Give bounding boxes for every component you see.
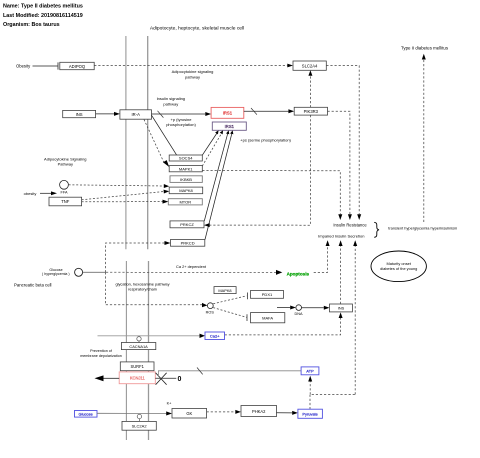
wire ROS inhibits PDX1 dashed [213,293,247,304]
svg-text:SURF1: SURF1 [130,364,144,369]
gene box MAPK1 [169,166,202,172]
svg-text:Apoptosis: Apoptosis [287,271,310,276]
label Adipocytokine signaling pathway right [172,69,214,80]
wire INS to IR-A [96,112,120,116]
brace [374,222,379,237]
svg-text:GK: GK [186,411,192,416]
metabolite box ATP [301,367,319,375]
svg-text:MAFA: MAFA [262,316,273,321]
wire MAPK1 to insulin resistance dashed [202,171,342,221]
gene box PHKA2 [241,406,277,417]
wire Obesity inhibits ADIPOQ [33,62,59,69]
gene box CACNA1A [121,343,155,350]
node ROS [206,303,215,315]
gene box IRS1 active (red) [211,107,244,118]
wire Ca2+ influx line [98,334,206,338]
svg-text:respiratory/chain: respiratory/chain [128,287,157,292]
gene box KCNJ11 [119,372,155,384]
svg-text:Ca 2+ dependent: Ca 2+ dependent [176,264,207,269]
wire ATP inhibits KCNJ11 [158,368,301,377]
gene box SURF1 [120,362,154,371]
svg-text:+ps (serine phosphorylation): +ps (serine phosphorylation) [240,137,291,142]
svg-text:IR-A: IR-A [132,112,141,117]
svg-text:phosphorylation): phosphorylation) [166,122,196,127]
wire ROS inhibits MAFA dashed [213,308,247,321]
wire glucose to GK [97,411,172,415]
wire IR-A to IRS1 active [152,111,212,118]
wire IRS1 to PIK3R3 [244,108,294,115]
membrane adipocyte left [125,36,127,249]
wire DNA to INS [302,306,330,310]
gene box GK [172,409,207,419]
wire TNF to MAPK8 dashed [82,190,170,200]
wire Ca2+ to INS dashed [225,312,343,335]
gene box INS beta cell [330,304,353,312]
svg-text:IRS1: IRS1 [225,124,235,129]
gene box MAPK8 [169,187,203,194]
svg-text:FFA: FFA [61,191,68,195]
gene box PIK3R3 [294,107,327,115]
svg-text:Adipocytokine signaling: Adipocytokine signaling [172,69,214,74]
wire MAPK1 to IRS1 dashed [202,130,223,166]
svg-text:Adipotocyte, heptocyte, skelet: Adipotocyte, heptocyte, skeletal muscle … [150,25,244,31]
svg-text:PIK3R3: PIK3R3 [304,109,319,114]
wire SLC2A4 to insulin resistance dashed [326,66,361,220]
wire TNF to MTOR dashed [82,200,169,204]
svg-text:transient hyperglycemia hyperi: transient hyperglycemia hyperinsulinism [388,225,457,230]
wire PIK3R3 to insulin resistance dashed [328,111,352,220]
svg-text:IRS1: IRS1 [223,111,233,116]
label Insulin signaling pathway [157,96,185,107]
svg-text:pathway: pathway [185,75,200,80]
wire PIK3R3 to SLC2A4 dashed [308,70,312,107]
wire pyruvate to ATP dashed [308,376,355,409]
gene box INS [63,110,96,117]
svg-text:Type II diabetes mellitus: Type II diabetes mellitus [401,45,449,50]
svg-text:SLC2A2: SLC2A2 [132,424,148,429]
wire K+ efflux blocked [95,373,182,385]
wire transient hyperglycemia to Type II diabetes dashed [422,54,426,222]
wire PRKCD to IRS1 [205,130,233,239]
wire PRKCZ to IRS1 [204,130,229,221]
svg-text:0: 0 [178,376,182,383]
label Adipocytokine Signaling Pathway left [44,157,86,167]
metabolite box Glucose [75,411,98,418]
svg-text:Impaired Insulin Secretion: Impaired Insulin Secretion [318,233,364,238]
svg-text:( hyperglycemia ): ( hyperglycemia ) [42,272,70,276]
gene box TNF [49,197,82,206]
membrane adipocyte right [147,36,149,249]
svg-text:Name: Type II diabetes mellitu: Name: Type II diabetes mellitus [3,4,83,10]
svg-text:Organism: Bos taurus: Organism: Bos taurus [3,22,60,28]
wire glycation to ROS dashed [106,272,208,307]
svg-text:CACNA1A: CACNA1A [129,344,148,349]
svg-text:Obesity: Obesity [16,64,31,69]
svg-text:Glucose: Glucose [79,412,93,417]
svg-text:DNA: DNA [294,312,302,316]
svg-text:PRKCZ: PRKCZ [180,222,194,227]
header title text [3,4,83,29]
wire obesity to FFA [40,191,57,195]
svg-text:Pathway: Pathway [58,161,73,166]
gene box PRKCD [171,240,205,247]
wire FFA to MAPK8 dashed [69,184,170,188]
wire glucose to apoptosis dashed [83,270,283,275]
wire SOCS4 to IRS1 [202,130,218,155]
wire ATP chain to impaired insulin secretion dashed [353,240,357,394]
svg-text:diabetes of the young: diabetes of the young [380,266,417,271]
wire apoptosis to impaired insulin secretion dashed [314,240,330,272]
wire to DNA [277,306,296,310]
svg-text:Pancreatic beta cell: Pancreatic beta cell [14,283,52,288]
gene box ADIPOQ [60,62,94,69]
svg-text:MAPK8: MAPK8 [218,288,231,293]
label tyrosine phosphorylation [166,117,196,127]
svg-text:INS: INS [76,112,83,117]
gene box SLC2A4 [293,61,326,70]
gene box IRS1 ser-phos (purple) [212,122,246,130]
membrane beta cell right [148,261,150,440]
wire ADIPOQ to SLC2A4 dashed [94,64,293,68]
svg-text:ADIPOQ: ADIPOQ [69,64,86,69]
svg-text:INS: INS [338,306,345,311]
svg-text:Last Modified: 20190816114519: Last Modified: 20190816114519 [3,13,83,19]
receptor box IR-A [120,110,152,119]
svg-text:Prevention of: Prevention of [90,349,113,353]
wire IR-A to SOCS4 [152,115,177,155]
metabolite box Pyruvate [298,409,323,418]
membrane beta cell left [125,261,127,440]
channel circle CACNA1A [137,337,141,343]
svg-text:obesity: obesity [24,191,37,196]
node glucose hyperglycemia circle [42,268,83,277]
svg-text:Pyruvate: Pyruvate [302,412,317,417]
svg-text:TNF: TNF [61,199,70,204]
gene box MAPK8 beta cell [214,287,236,294]
svg-text:Insulin Resistance: Insulin Resistance [333,223,367,228]
svg-text:SOCS4: SOCS4 [179,156,193,161]
svg-text:K+: K+ [167,401,173,405]
wire glucose to PRKCD dashed [106,241,171,272]
svg-text:Ca2+: Ca2+ [210,334,220,339]
svg-text:Insulin signaling: Insulin signaling [157,96,185,101]
label prevention of membrane depolarization [80,349,122,358]
svg-text:MAPK1: MAPK1 [179,167,193,172]
wire INS to impaired insulin secretion dashed [339,240,343,304]
gene box PRKCZ [170,221,204,228]
svg-text:membrane depolarization: membrane depolarization [80,354,122,358]
svg-text:PRKCD: PRKCD [181,241,195,246]
svg-text:pathway: pathway [163,102,178,107]
svg-text:ATP: ATP [306,369,314,374]
wire PHKA2 to pyruvate [277,411,298,415]
svg-text:ROS: ROS [206,310,215,314]
svg-text:SLC2A4: SLC2A4 [302,64,318,69]
label glycation hexosamine pathway [115,282,169,292]
wire IR-A to MAPK1 dashed [144,120,169,168]
gene box PDX1 [251,291,284,299]
phenotype ellipse MODY [371,251,426,282]
svg-text:IKBKB: IKBKB [180,177,192,182]
node FFA circle [60,180,69,194]
transporter circle SLC2A2 [137,414,141,421]
gene box SLC2A2 [122,421,156,430]
svg-text:PHKA2: PHKA2 [252,409,266,414]
svg-text:KCNJ11: KCNJ11 [130,376,146,381]
gene box IKBKB [170,176,202,183]
metabolite box Ca2+ [205,332,225,340]
gene box MAFA [251,313,285,323]
svg-text:PDX1: PDX1 [262,292,273,297]
svg-text:MAPK8: MAPK8 [179,188,193,193]
svg-text:MTOR: MTOR [179,200,191,205]
wire PIK3R3 to PRKCZ dashed [204,115,310,227]
gene box SOCS4 [169,155,202,161]
wire GK to PHKA2 dashed [207,410,241,414]
gene box MTOR [168,199,202,205]
node DNA [294,305,302,316]
